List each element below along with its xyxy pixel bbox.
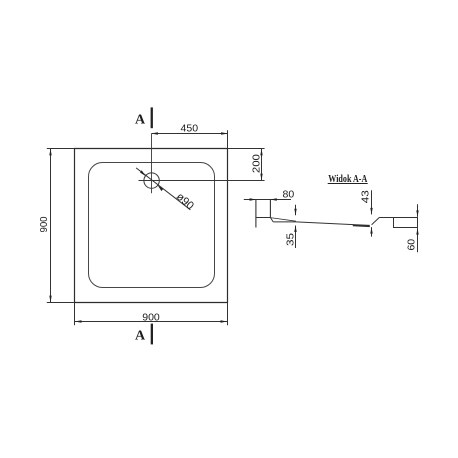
leader arrow upper (tip at circle edge) [140, 170, 146, 176]
dimension 35 upper line [295, 205, 297, 216]
dimension 450 left arrow [151, 132, 158, 134]
dimension 450 right arrow [221, 132, 228, 134]
dimension 900 left extension top [47, 148, 74, 150]
svg-text:200: 200 [250, 154, 262, 173]
dimension 900 bottom extension right [227, 303, 229, 326]
crosshair vertical / 450-dim left extension [151, 134, 153, 194]
dimension 900 left bottom arrow [49, 296, 51, 303]
section floor underside sloping line [270, 218, 296, 222]
drain circle [144, 173, 159, 188]
inner rounded square (tray basin) [89, 163, 215, 288]
dimension 60 lower line [417, 228, 419, 252]
dimension 200 top arrow [260, 149, 262, 156]
dimension 900 bottom right arrow [221, 320, 228, 322]
dimension 80 line [244, 199, 291, 201]
section floor line right of drain [379, 217, 393, 219]
dimension 43 lower line [371, 227, 373, 237]
leader arrow lower (tip at circle edge) [158, 185, 164, 191]
dimension 60 upper arrow (points down) [416, 210, 418, 217]
section right end rectangle [394, 218, 418, 228]
dimension 80 right arrow (points left) [270, 198, 277, 200]
svg-text:450: 450 [181, 123, 199, 135]
crosshair horizontal / 200-dim bottom extension [139, 180, 265, 182]
svg-text:900: 900 [38, 216, 50, 232]
dimension 35 lower arrow (points up) [294, 226, 296, 233]
outer square right edge [227, 148, 229, 303]
dimension 43 upper line [371, 190, 373, 214]
dimension 43 lower arrow (points up) [370, 227, 372, 234]
svg-text:A: A [135, 329, 146, 344]
section chamfer down [270, 218, 273, 222]
dimension 900 bottom left arrow [75, 320, 82, 322]
dimension 200 top extension [228, 148, 265, 150]
outer square top edge (tray outline, plan view) [74, 148, 228, 150]
section mark A bottom bar [151, 324, 153, 345]
section bottom line [273, 221, 296, 223]
dimension 450 line [152, 133, 228, 135]
dimension 900 left top arrow [49, 149, 51, 156]
svg-text:35: 35 [285, 233, 297, 246]
svg-text:ø90: ø90 [174, 191, 196, 213]
dimension 60 lower arrow (points up) [416, 228, 418, 235]
dimension 80 left arrow (points right) [250, 198, 257, 200]
dimension 43 upper arrow (points down) [370, 208, 372, 215]
dimension 900 bottom extension left [74, 303, 76, 326]
leader line o90 [136, 168, 190, 210]
section mark A top bar [151, 107, 153, 128]
dimension 900 left extension bottom [47, 302, 74, 304]
section wall inner line [269, 200, 271, 218]
section chamfer up (drain to floor) [372, 217, 380, 224]
dimension 60 upper line [417, 204, 419, 217]
dimension 200 line [261, 149, 263, 181]
dimension 35 lower line [295, 226, 297, 249]
section wall outer line [255, 200, 257, 228]
dimension 900 bottom line [75, 321, 228, 323]
dimension 900 left line [50, 149, 52, 303]
dimension 450 right extension [227, 130, 229, 148]
drain flange bar [353, 224, 370, 227]
svg-text:80: 80 [283, 188, 295, 200]
svg-text:60: 60 [406, 239, 418, 251]
outer square left edge [74, 148, 76, 303]
section floor horizontal at wall [255, 217, 270, 219]
svg-text:A: A [135, 113, 146, 128]
section long slope line to drain [296, 222, 353, 225]
svg-text:900: 900 [142, 311, 160, 323]
svg-text:43: 43 [359, 190, 371, 203]
dimension 35 upper arrow (points down) [294, 209, 296, 216]
dimension 200 bottom arrow [260, 174, 262, 181]
section title underline [328, 183, 368, 185]
outer square bottom edge [74, 302, 228, 304]
